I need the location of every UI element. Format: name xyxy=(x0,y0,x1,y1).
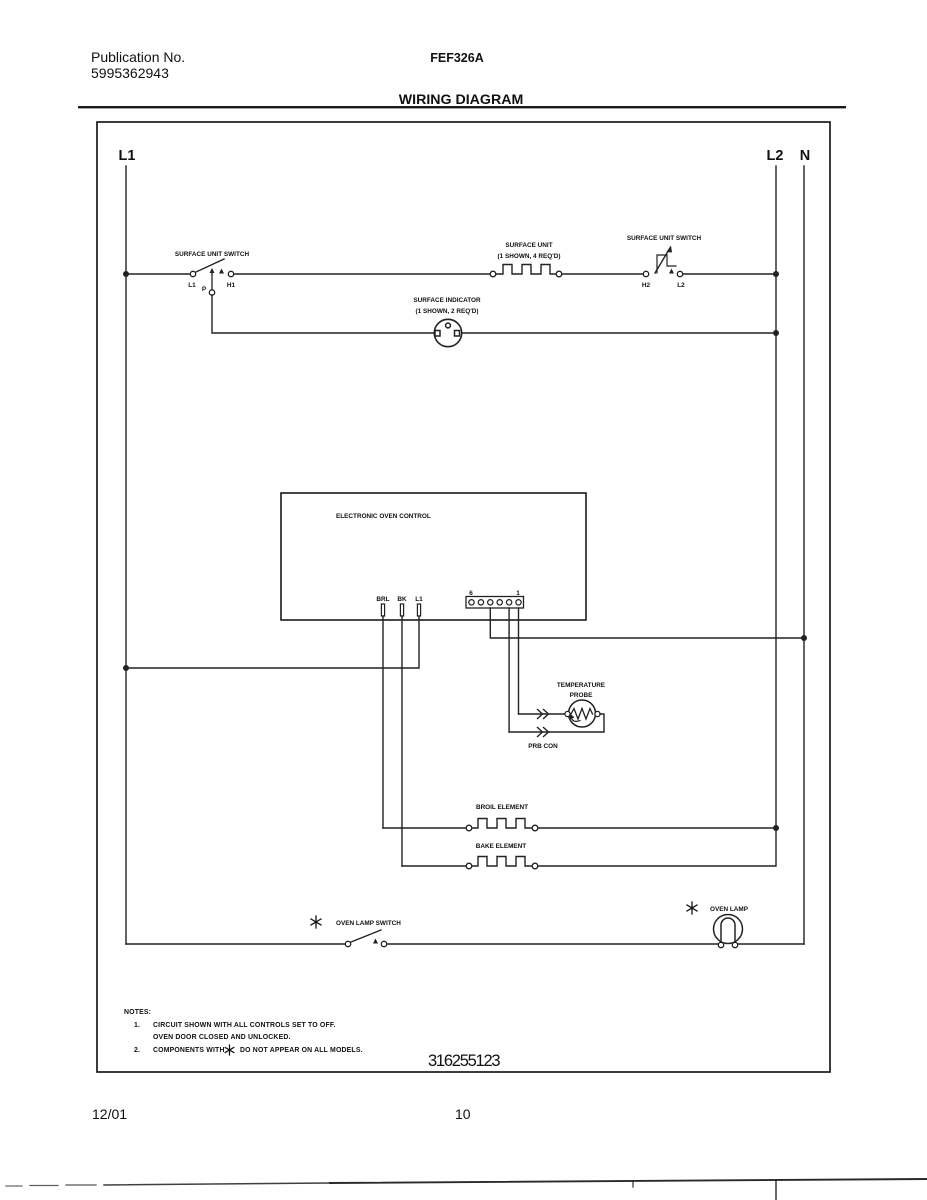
bottom scan rule xyxy=(6,1179,927,1200)
junction dot L2 top row xyxy=(773,271,779,277)
svg-text:BROIL ELEMENT: BROIL ELEMENT xyxy=(476,804,528,811)
surface unit switch SW1 xyxy=(190,259,233,295)
wire L1 bus vertical xyxy=(125,166,127,944)
oven lamp DS1 xyxy=(714,915,743,948)
surface unit switch SW2 xyxy=(643,246,682,277)
svg-text:(1 SHOWN, 2 REQ'D): (1 SHOWN, 2 REQ'D) xyxy=(416,308,479,315)
temperature probe RT1 xyxy=(565,700,600,727)
surface unit heating element xyxy=(490,265,562,277)
svg-text:DO NOT APPEAR ON ALL MODELS.: DO NOT APPEAR ON ALL MODELS. xyxy=(240,1047,363,1054)
switch SW2 terminal labels H2 L2 xyxy=(642,282,685,289)
wire lamp switch to oven lamp xyxy=(387,943,718,945)
wire BRL pin down to broil element xyxy=(382,616,384,828)
surface indicator label xyxy=(413,297,481,315)
svg-text:TEMPERATURE: TEMPERATURE xyxy=(557,682,606,689)
broil element resistor xyxy=(383,819,776,831)
svg-text:SURFACE UNIT SWITCH: SURFACE UNIT SWITCH xyxy=(627,235,702,242)
wire oven lamp to N bus xyxy=(738,943,804,945)
wire probe return with chevron xyxy=(509,714,604,737)
wire connector pin 2 down to probe return xyxy=(508,608,510,732)
wire indicator to L2 bus xyxy=(462,332,776,334)
svg-text:(1 SHOWN, 4 REQ'D): (1 SHOWN, 4 REQ'D) xyxy=(498,253,561,260)
svg-text:L2: L2 xyxy=(767,148,784,164)
oven lamp asterisk xyxy=(687,902,697,914)
surface unit label xyxy=(498,242,561,260)
svg-text:COMPONENTS WITH: COMPONENTS WITH xyxy=(153,1047,225,1054)
svg-text:BK: BK xyxy=(397,596,407,603)
terminal pin BK xyxy=(400,604,403,616)
junction dot L1 top row xyxy=(123,271,129,277)
connector J1 pin numbers 6 and 1 xyxy=(469,590,520,597)
svg-text:12/01: 12/01 xyxy=(92,1106,127,1122)
diagram border frame xyxy=(97,122,830,1072)
svg-text:BRL: BRL xyxy=(376,596,389,603)
wire H1 to surface unit element xyxy=(234,273,490,275)
wire probe feed with PRB CON chevron xyxy=(519,710,566,719)
notes asterisk xyxy=(225,1045,234,1055)
svg-text:OVEN DOOR CLOSED AND UNLOCKED.: OVEN DOOR CLOSED AND UNLOCKED. xyxy=(153,1034,291,1041)
junction dot L2 indicator xyxy=(773,330,779,336)
wire right switch to L2 bus xyxy=(683,273,776,275)
svg-text:Publication No.: Publication No. xyxy=(91,49,185,65)
wire L1 bus to oven lamp switch xyxy=(126,943,345,945)
svg-text:5995362943: 5995362943 xyxy=(91,65,169,81)
svg-text:10: 10 xyxy=(455,1106,471,1122)
electronic oven control box U1 xyxy=(281,493,586,620)
bake element resistor xyxy=(402,829,776,869)
notes text block xyxy=(124,1009,363,1054)
svg-text:L1: L1 xyxy=(415,596,423,603)
svg-text:2.: 2. xyxy=(134,1047,140,1054)
svg-text:316255123: 316255123 xyxy=(428,1052,500,1070)
svg-text:OVEN LAMP: OVEN LAMP xyxy=(710,906,749,913)
svg-text:SURFACE UNIT SWITCH: SURFACE UNIT SWITCH xyxy=(175,251,250,258)
svg-text:1.: 1. xyxy=(134,1022,140,1029)
header publication number text xyxy=(91,49,185,81)
wire surface unit to right switch xyxy=(562,273,643,275)
svg-text:ELECTRONIC OVEN CONTROL: ELECTRONIC OVEN CONTROL xyxy=(336,513,431,520)
terminal pin L1 xyxy=(417,604,420,616)
wire L2 bus vertical xyxy=(775,166,777,829)
wire BK pin down to bake element xyxy=(401,616,403,866)
wire P contact down to indicator row xyxy=(212,295,434,333)
surface indicator lamp xyxy=(434,319,461,346)
svg-text:PROBE: PROBE xyxy=(570,692,593,699)
svg-text:L1: L1 xyxy=(188,282,196,289)
wire connector pin 1 down to probe feed xyxy=(518,608,520,714)
wire N bus vertical xyxy=(803,166,805,944)
svg-text:NOTES:: NOTES: xyxy=(124,1009,151,1016)
junction dot N control xyxy=(801,635,807,641)
svg-text:FEF326A: FEF326A xyxy=(430,51,484,65)
title underline rule xyxy=(78,106,846,108)
junction dot L1 control feed xyxy=(123,665,129,671)
svg-text:P: P xyxy=(202,286,207,293)
svg-text:L2: L2 xyxy=(677,282,685,289)
svg-text:H1: H1 xyxy=(227,282,236,289)
oven lamp switch asterisk xyxy=(311,916,321,928)
temperature probe label xyxy=(557,682,606,699)
terminal pin BRL xyxy=(381,604,384,616)
wire connector pin 4 to N bus xyxy=(490,608,804,638)
switch SW1 terminal labels L1 P H1 xyxy=(188,282,235,293)
wire L1 pin to L1 bus xyxy=(126,616,419,668)
svg-text:WIRING DIAGRAM: WIRING DIAGRAM xyxy=(399,92,524,108)
oven lamp switch SW3 xyxy=(345,930,386,947)
svg-text:SURFACE UNIT: SURFACE UNIT xyxy=(505,242,552,249)
junction dot L2 broil xyxy=(773,825,779,831)
svg-text:SURFACE INDICATOR: SURFACE INDICATOR xyxy=(413,297,481,304)
svg-text:OVEN LAMP SWITCH: OVEN LAMP SWITCH xyxy=(336,920,401,927)
svg-text:CIRCUIT SHOWN WITH ALL CONTROL: CIRCUIT SHOWN WITH ALL CONTROLS SET TO O… xyxy=(153,1022,336,1029)
svg-text:PRB CON: PRB CON xyxy=(528,743,558,750)
connector J1 block xyxy=(466,597,524,609)
terminal labels BRL BK L1 xyxy=(376,596,423,603)
svg-text:BAKE ELEMENT: BAKE ELEMENT xyxy=(476,843,527,850)
wire L1 to surface unit switch xyxy=(126,273,190,275)
svg-text:N: N xyxy=(800,148,810,164)
svg-text:L1: L1 xyxy=(119,148,136,164)
svg-text:H2: H2 xyxy=(642,282,651,289)
